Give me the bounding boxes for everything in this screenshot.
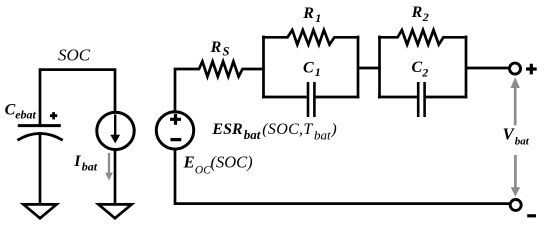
svg-text:bat: bat — [515, 136, 530, 148]
svg-text:SOC: SOC — [58, 46, 91, 65]
svg-text:R: R — [210, 39, 222, 56]
svg-text:bat: bat — [244, 127, 261, 142]
svg-text:C: C — [5, 101, 16, 118]
svg-text:R: R — [411, 4, 423, 21]
svg-text:1: 1 — [315, 11, 321, 25]
svg-text:(SOC): (SOC) — [211, 153, 253, 172]
svg-text:V: V — [503, 125, 516, 144]
svg-text:ebat: ebat — [15, 108, 36, 122]
svg-text:S: S — [223, 44, 230, 58]
svg-text:ESR: ESR — [211, 121, 243, 138]
svg-text:bat: bat — [314, 127, 331, 142]
svg-text:OC: OC — [195, 165, 211, 177]
svg-text:C: C — [303, 60, 314, 77]
svg-text:E: E — [183, 153, 195, 172]
svg-text:2: 2 — [422, 10, 429, 24]
svg-text:): ) — [330, 121, 336, 138]
svg-text:I: I — [73, 153, 81, 170]
svg-text:C: C — [412, 59, 423, 76]
svg-text:(SOC,T: (SOC,T — [262, 121, 313, 138]
svg-text:R: R — [302, 5, 314, 22]
svg-text:1: 1 — [315, 65, 321, 79]
svg-text:bat: bat — [82, 160, 98, 174]
svg-text:2: 2 — [421, 65, 428, 79]
